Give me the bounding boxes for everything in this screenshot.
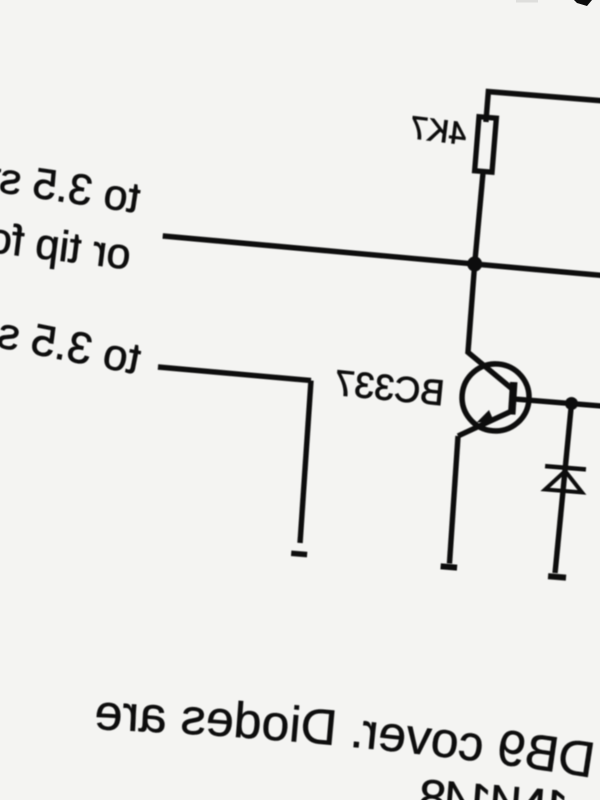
wire base (513, 399, 600, 407)
wire emitter vertical (448, 436, 460, 564)
transistor base bar (511, 382, 514, 414)
sleeve pin bar (291, 553, 307, 554)
node junction 2 (564, 396, 578, 410)
wire long horizontal (162, 236, 600, 280)
transistor Q1 circle (459, 361, 531, 433)
wire emitter diagonal (458, 407, 512, 440)
wire top supply (486, 92, 600, 137)
caption line 1 (62, 723, 596, 778)
diode D1 triangle (545, 470, 583, 493)
emitter pin bar (441, 566, 457, 567)
wire sleeve vertical (298, 381, 313, 543)
wire resistor to node (475, 173, 483, 264)
wire diode through (555, 403, 571, 573)
wire sleeve horizontal (158, 367, 311, 381)
diode D1 cathode bar (545, 466, 586, 469)
faint smudge top edge (516, 0, 538, 3)
diode pin bar (548, 576, 566, 577)
stray glyph fragment top edge (574, 0, 592, 6)
svg-text:4K7: 4K7 (408, 109, 469, 152)
node junction 1 (467, 256, 483, 272)
emitter arrow (477, 409, 496, 424)
resistor R1 (475, 117, 497, 172)
wire collector (465, 264, 521, 388)
